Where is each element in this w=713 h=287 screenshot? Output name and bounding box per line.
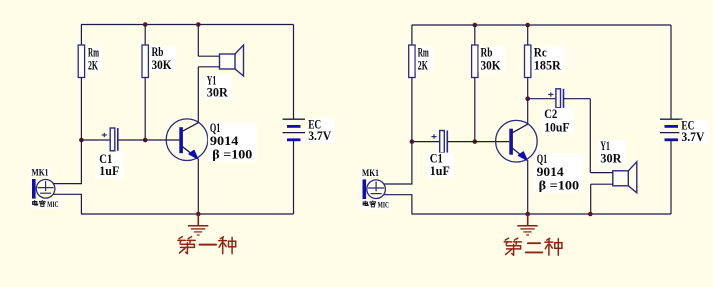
- transistor Q1 NPN (left): [166, 119, 208, 161]
- junction: base node at Rb bottom (right): [473, 139, 478, 144]
- wire: node B to C1 left plate (right): [412, 141, 440, 143]
- junction node A (left: Rm/C1/mic): [79, 138, 84, 143]
- svg-text:3.7V: 3.7V: [681, 129, 705, 144]
- capacitor C1 (right): [440, 131, 448, 153]
- resistor Rb (right): [472, 45, 478, 78]
- label Rc 185R: [532, 45, 565, 73]
- wire: top rail to Rc top: [527, 25, 529, 46]
- svg-text:10uF: 10uF: [544, 119, 569, 134]
- wire: Rc bottom to collector node: [527, 77, 529, 99]
- wire: C2 right plate to speaker column: [564, 98, 591, 100]
- label Q1 9014 beta (right): [535, 151, 583, 193]
- svg-text:2K: 2K: [418, 57, 429, 72]
- junction: collector node (Rc/C2/Q1): [525, 96, 530, 101]
- battery EC 3.7V (right): [660, 119, 683, 140]
- wire: speaker bottom terminal: [198, 66, 219, 68]
- junction: speaker at bottom rail: [588, 212, 593, 217]
- wire: battery - down to bottom rail (right): [670, 140, 672, 214]
- wire: left circuit bottom rail: [81, 213, 294, 215]
- wire: Rb bottom to base node: [144, 77, 146, 140]
- wire: mic upper terminal horizontal: [54, 183, 83, 185]
- battery EC 3.7V (left): [283, 119, 306, 140]
- wire: speaker to collector: [197, 67, 199, 123]
- label Y1 30R (left): [205, 72, 232, 99]
- svg-text:β =100: β =100: [212, 146, 252, 161]
- wire: C1 right plate to base bar (right): [447, 141, 509, 143]
- microphone MK1 (left) 电容MIC label: [31, 199, 61, 209]
- junction: ground node on bottom rail (right): [525, 212, 530, 217]
- wire: speaker bottom terminal (right): [591, 183, 613, 185]
- label C2 10uF: [542, 106, 573, 134]
- svg-text:MK1: MK1: [362, 169, 379, 179]
- svg-text:1uF: 1uF: [430, 163, 450, 178]
- svg-text:30K: 30K: [481, 57, 502, 72]
- wire: top rail to Rb top (right): [474, 25, 476, 46]
- junction: Rb top at top rail (right): [473, 23, 478, 28]
- resistor Rb (left): [142, 45, 148, 78]
- label Rm 2K (right): [416, 45, 433, 73]
- ground symbol (left): [188, 214, 208, 235]
- label Rm 2K (left): [86, 45, 103, 73]
- svg-text:3.7V: 3.7V: [308, 128, 332, 143]
- label Rb 30K (right): [479, 45, 505, 73]
- wire: speaker column down: [589, 99, 591, 173]
- junction: ground node on bottom rail (left): [196, 212, 201, 217]
- label C1 1uF (left): [97, 151, 123, 178]
- junction: speaker branch at top rail (left): [196, 22, 201, 27]
- wire: Rm bottom to node A: [80, 77, 82, 140]
- svg-text:MIC: MIC: [47, 199, 59, 209]
- wire: mic lower corner down to bottom rail (right): [411, 195, 413, 214]
- wire: collector node down to Q1: [527, 99, 529, 124]
- label Rb 30K (left): [150, 44, 176, 72]
- svg-text:β =100: β =100: [539, 177, 580, 192]
- label C1 1uF (right): [428, 151, 454, 178]
- microphone MK1 (right) MK1 designator: [361, 169, 381, 180]
- svg-text:MIC: MIC: [378, 200, 390, 210]
- capacitor C1 (left): [110, 128, 118, 151]
- label EC 3.7V (left): [306, 116, 335, 143]
- resistor Rm (right): [409, 45, 415, 78]
- wire: top rail to Rb top: [144, 25, 146, 46]
- wire: mic lower terminal horizontal (right): [384, 194, 413, 196]
- wire: right rail down to Rm top: [411, 25, 413, 46]
- wire: C1 right plate to base bar: [118, 139, 180, 141]
- transistor Q1 NPN (right): [496, 120, 538, 162]
- svg-text:30R: 30R: [600, 150, 622, 165]
- wire: top rail right corner down to battery + (right): [670, 25, 672, 119]
- wire: mic upper terminal horizontal (right): [384, 183, 413, 185]
- svg-text:MK1: MK1: [32, 169, 49, 179]
- wire: node A down to mic upper corner: [80, 140, 82, 184]
- wire: left rail down to Rm top: [80, 25, 82, 46]
- microphone MK1 (right): [363, 179, 386, 199]
- speaker Y1 (right): [613, 162, 637, 193]
- microphone MK1 (left) MK1 designator: [31, 168, 51, 179]
- svg-text:185R: 185R: [534, 57, 562, 72]
- wire: collector node to C2 left plate: [528, 98, 556, 100]
- wire: node A to C1 left plate: [81, 139, 110, 141]
- wire: mic lower corner down to bottom rail: [80, 194, 82, 214]
- microphone MK1 (right) 电容MIC label: [361, 200, 391, 210]
- label Q1 9014 beta (left): [208, 120, 256, 161]
- svg-text:30R: 30R: [207, 85, 229, 100]
- label Y1 30R (right): [598, 138, 625, 165]
- wire: left circuit top rail: [81, 24, 294, 26]
- resistor Rc: [525, 45, 531, 78]
- junction node B (right: Rm/C1/mic): [410, 139, 415, 144]
- speaker Y1 (left): [220, 45, 244, 76]
- ground symbol (right): [517, 214, 537, 235]
- wire: Rm bottom to node B: [411, 77, 413, 142]
- svg-text:1uF: 1uF: [99, 163, 119, 178]
- wire: speaker bottom down to rail: [590, 184, 592, 214]
- wire: battery - down to bottom rail: [293, 140, 295, 214]
- label EC 3.7V (right): [679, 118, 708, 144]
- wire: emitter down to ground node: [197, 159, 199, 214]
- wire: top rail right corner down to battery +: [293, 25, 295, 120]
- wire: emitter down to bottom rail (right): [527, 160, 529, 214]
- svg-text:30K: 30K: [152, 57, 173, 72]
- svg-text:2K: 2K: [88, 57, 99, 72]
- wire: top rail down to speaker top terminal: [197, 25, 199, 57]
- wire: mic lower terminal horizontal: [54, 193, 83, 195]
- junction: base node at Rb bottom (left): [143, 138, 148, 143]
- wire: node B down to mic upper corner: [411, 142, 413, 184]
- caption 第二种 (type two): [504, 238, 562, 255]
- resistor Rm (left): [78, 45, 84, 78]
- wire: speaker top terminal (right): [590, 172, 613, 174]
- wire: Rb bottom to base node (right): [474, 77, 476, 142]
- wire: right circuit top rail: [412, 24, 671, 26]
- wire: speaker top terminal: [198, 55, 219, 57]
- junction: Rc top at top rail: [525, 23, 530, 28]
- junction: Rb top at top rail (left): [143, 22, 148, 27]
- wire: right circuit bottom rail: [412, 213, 671, 215]
- microphone MK1 (left): [32, 179, 55, 199]
- caption 第一种 (type one): [178, 237, 236, 254]
- capacitor C2: [556, 89, 564, 108]
